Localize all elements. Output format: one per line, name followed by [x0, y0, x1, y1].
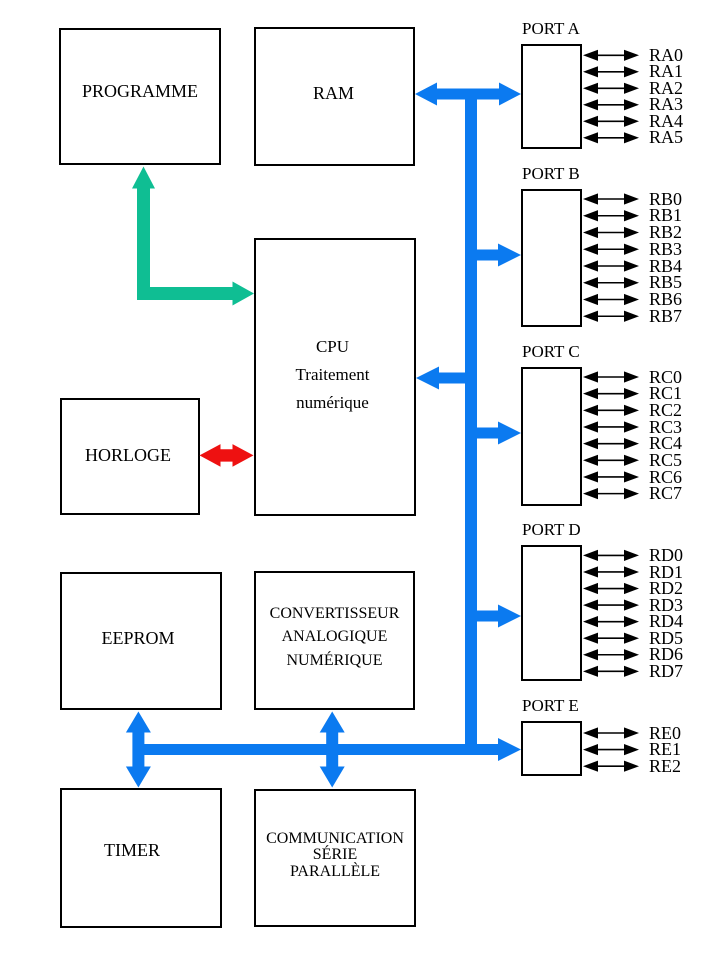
- pin arrow RB1: [583, 210, 639, 221]
- pin arrow RC0: [583, 371, 639, 382]
- pin arrow RD5: [583, 633, 639, 644]
- label CONVERTISSEUR ANALOGIQUE NUMÉRIQUE: [254, 602, 415, 673]
- label PORT C: [522, 343, 580, 360]
- pin arrow RD3: [583, 599, 639, 610]
- pin arrow RD1: [583, 566, 639, 577]
- pin arrow RC4: [583, 438, 639, 449]
- wire EEPROM to TIMER double arrow: [126, 712, 151, 788]
- PORT B box: [521, 189, 582, 327]
- label COMMUNICATION SÉRIE PARALLÈLE: [254, 831, 416, 880]
- wire bus branch to PORT C: [471, 422, 521, 445]
- wire peripheral bus horizontal to PORT E: [138, 738, 521, 761]
- wire bus RAM to PORT A double arrow: [415, 83, 521, 106]
- pin arrow RB6: [583, 294, 639, 305]
- pin arrow RD6: [583, 649, 639, 660]
- pin arrow RB7: [583, 311, 639, 322]
- label CPU Traitement numérique: [252, 333, 414, 416]
- PORT A box: [521, 44, 582, 149]
- wire CONVERTISSEUR to COMMUNICATION double arrow: [320, 712, 345, 788]
- pin arrow RE2: [583, 761, 639, 772]
- block CPU: [254, 238, 416, 516]
- label PROGRAMME: [59, 82, 221, 100]
- pin labels RE0-RE2: [649, 725, 681, 775]
- label EEPROM: [57, 629, 219, 647]
- pin arrow RD2: [583, 583, 639, 594]
- block HORLOGE: [60, 398, 200, 515]
- pin labels RB0-RB7: [649, 191, 682, 325]
- wire bus branch to PORT D: [471, 605, 521, 628]
- pin arrow RC5: [583, 455, 639, 466]
- label HORLOGE: [58, 446, 198, 464]
- pin arrow RB2: [583, 227, 639, 238]
- pin arrow RC6: [583, 471, 639, 482]
- block CONVERTISSEUR: [254, 571, 415, 710]
- pin arrow RC1: [583, 388, 639, 399]
- pin labels RC0-RC7: [649, 369, 682, 502]
- wire main data bus vertical: [465, 90, 477, 755]
- pin arrow RA3: [583, 99, 639, 110]
- pin arrow RD0: [583, 550, 639, 561]
- label PORT A: [522, 20, 580, 37]
- pin labels RA0-RA5: [649, 47, 683, 146]
- pin arrow RD4: [583, 616, 639, 627]
- pin arrow RD7: [583, 666, 639, 677]
- pin arrow RB4: [583, 260, 639, 271]
- wire bus branch to PORT B: [471, 244, 521, 267]
- label PORT B: [522, 165, 580, 182]
- block TIMER: [60, 788, 222, 928]
- pin arrow RE1: [583, 744, 639, 755]
- pin arrow RB5: [583, 277, 639, 288]
- label RAM: [253, 84, 414, 102]
- wire CPU to PROGRAMME green arrow: [132, 167, 254, 306]
- pin arrow RA1: [583, 66, 639, 77]
- pin arrow RA2: [583, 83, 639, 94]
- pin arrow RA0: [583, 50, 639, 61]
- block EEPROM: [60, 572, 222, 710]
- pin arrow RE0: [583, 727, 639, 738]
- pin arrow RA4: [583, 116, 639, 127]
- wire HORLOGE to CPU red double arrow: [200, 444, 254, 467]
- pin arrow RC2: [583, 405, 639, 416]
- PORT E box: [521, 721, 582, 776]
- pin arrow RC3: [583, 421, 639, 432]
- wire bus to CPU arrow: [416, 367, 471, 390]
- pin arrow RA5: [583, 132, 639, 143]
- label PORT D: [522, 521, 581, 538]
- pin labels RD0-RD7: [649, 547, 683, 680]
- label TIMER: [51, 841, 213, 859]
- pin arrow RB0: [583, 193, 639, 204]
- PORT C box: [521, 367, 582, 506]
- pin arrow RC7: [583, 488, 639, 499]
- block PROGRAMME: [59, 28, 221, 165]
- label PORT E: [522, 697, 579, 714]
- block COMMUNICATION: [254, 789, 416, 927]
- block RAM: [254, 27, 415, 166]
- PORT D box: [521, 545, 582, 681]
- pin arrow RB3: [583, 244, 639, 255]
